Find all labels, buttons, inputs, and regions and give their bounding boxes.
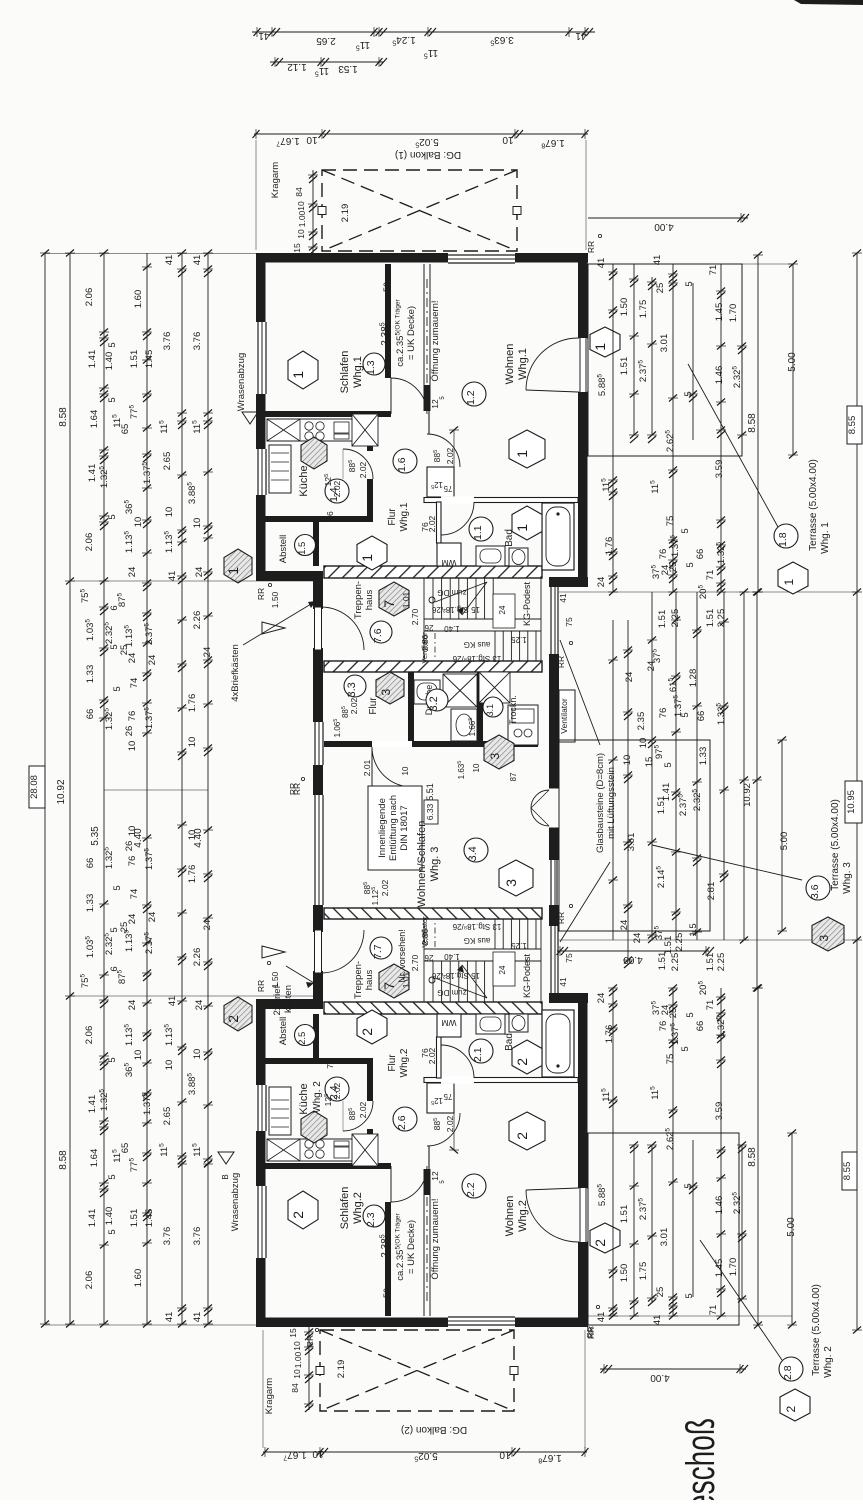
svg-text:10: 10 [502,134,514,145]
svg-text:13 Stg.18⁸/26: 13 Stg.18⁸/26 [452,654,501,663]
svg-text:10: 10 [292,1369,302,1379]
svg-text:3.01: 3.01 [659,334,670,353]
svg-text:3: 3 [488,753,502,760]
svg-text:5.00: 5.00 [779,832,790,851]
svg-text:10: 10 [164,507,175,518]
svg-text:2: 2 [225,1015,241,1023]
svg-text:24: 24 [596,577,607,588]
svg-text:15 Stg.18²/26: 15 Stg.18²/26 [431,971,480,980]
svg-text:1.51: 1.51 [619,1205,630,1224]
svg-text:41: 41 [652,1315,663,1326]
svg-text:3.4: 3.4 [467,846,479,861]
svg-text:2.2: 2.2 [465,1182,477,1197]
svg-text:41: 41 [167,571,178,582]
svg-text:2.02: 2.02 [445,447,455,464]
svg-text:76: 76 [658,549,669,560]
svg-text:41: 41 [164,1312,175,1323]
svg-text:1.60: 1.60 [133,290,144,309]
svg-text:DG: Balkon (2): DG: Balkon (2) [401,1424,467,1435]
svg-text:Whg.1: Whg.1 [352,356,364,388]
svg-text:2.02: 2.02 [332,1082,342,1099]
svg-text:2xBrief-: 2xBrief- [272,983,283,1016]
svg-text:3.3: 3.3 [346,682,358,697]
svg-text:2.5: 2.5 [297,1032,308,1045]
svg-text:10: 10 [292,1341,302,1351]
svg-text:= UK Decke): = UK Decke) [406,1220,417,1274]
svg-text:24: 24 [202,647,213,658]
svg-text:3: 3 [503,879,519,887]
svg-text:10.92: 10.92 [742,783,753,807]
svg-text:B: B [221,1174,230,1179]
svg-text:Whg.1: Whg.1 [399,502,410,531]
svg-text:KG-Podest: KG-Podest [522,581,532,626]
svg-text:84: 84 [294,187,304,197]
svg-text:5: 5 [109,927,120,932]
svg-text:haus: haus [364,589,375,610]
svg-text:Ventilator: Ventilator [420,916,429,948]
svg-text:41: 41 [558,593,568,603]
svg-text:13 Stg.18⁸/26: 13 Stg.18⁸/26 [452,922,501,931]
svg-text:24: 24 [619,920,630,931]
svg-text:2: 2 [359,1028,375,1036]
svg-text:Ventilator: Ventilator [420,632,429,664]
svg-text:66: 66 [85,709,96,720]
svg-text:15: 15 [292,243,302,253]
svg-text:1.5: 1.5 [297,542,308,555]
svg-text:1: 1 [782,579,796,586]
svg-text:76: 76 [658,708,669,719]
svg-text:Whg.1: Whg.1 [517,348,529,380]
svg-text:66: 66 [695,549,706,560]
svg-text:6.33: 6.33 [425,803,435,820]
terrace Whg.3 outline [559,740,710,931]
svg-text:1: 1 [592,343,608,351]
svg-text:26: 26 [124,726,135,737]
svg-text:5: 5 [107,397,118,402]
svg-text:Wrasenabzug: Wrasenabzug [230,1173,241,1231]
svg-text:50: 50 [382,282,392,292]
svg-text:24: 24 [596,993,607,1004]
svg-text:Flur: Flur [368,697,379,715]
svg-text:3.01: 3.01 [659,1228,670,1247]
svg-text:7: 7 [381,982,397,990]
right dimension chains [608,252,798,596]
svg-text:1.70: 1.70 [728,304,739,323]
svg-text:75: 75 [443,1092,452,1101]
svg-text:DG: Balkon (1): DG: Balkon (1) [395,149,461,160]
svg-text:Schlafen: Schlafen [339,1187,351,1230]
svg-text:RR: RR [288,783,298,795]
svg-text:41: 41 [596,1312,607,1323]
svg-text:84: 84 [290,1383,300,1393]
svg-text:1.33: 1.33 [85,894,96,913]
svg-text:8.58: 8.58 [58,407,69,427]
svg-text:1.45: 1.45 [144,1209,155,1228]
svg-text:5: 5 [109,644,120,649]
svg-text:41: 41 [258,30,270,41]
svg-text:1.51: 1.51 [705,609,716,628]
svg-text:= UK Decke): = UK Decke) [406,306,417,360]
svg-text:Entlüftung nach: Entlüftung nach [388,795,399,861]
svg-text:Treppen-: Treppen- [353,581,364,619]
svg-text:2.19: 2.19 [340,204,351,223]
svg-text:1.40: 1.40 [444,624,460,633]
svg-text:71: 71 [708,1305,719,1316]
svg-text:1.50: 1.50 [270,591,280,608]
svg-text:RR: RR [556,912,566,924]
svg-text:66: 66 [85,858,96,869]
svg-text:41: 41 [167,996,178,1007]
Kragarm labels and small dim columns at balconies [264,162,351,1415]
Glasbausteine annotation with leaders [560,640,617,942]
svg-text:3.2: 3.2 [428,696,440,711]
svg-text:1.00: 1.00 [293,1351,303,1368]
left dimension chains [40,250,213,1328]
svg-text:Innenliegende: Innenliegende [377,798,388,858]
svg-text:8.58: 8.58 [747,1147,758,1167]
svg-text:RR: RR [586,241,596,253]
svg-text:28.08: 28.08 [29,775,40,799]
svg-text:RR: RR [556,656,566,668]
svg-text:Kragarm: Kragarm [270,162,281,199]
svg-text:2.06: 2.06 [84,1026,95,1045]
svg-text:50: 50 [382,1288,392,1298]
svg-text:5: 5 [107,1174,118,1179]
svg-text:2.06: 2.06 [84,533,95,552]
svg-text:Whg. 3: Whg. 3 [842,862,853,894]
svg-text:10: 10 [187,737,198,748]
svg-text:1.41: 1.41 [87,1209,98,1228]
svg-text:1.01: 1.01 [401,591,411,608]
terrace Whg.2 outline [588,1133,739,1325]
svg-text:KG-Podest: KG-Podest [522,953,532,998]
svg-text:65: 65 [120,424,131,435]
svg-text:3.76: 3.76 [192,332,203,351]
svg-text:5: 5 [683,391,694,396]
svg-text:25: 25 [668,1008,679,1019]
svg-text:5: 5 [112,686,123,691]
svg-text:15: 15 [644,757,655,768]
svg-text:2.25: 2.25 [716,953,727,972]
svg-text:41: 41 [575,30,587,41]
svg-text:1.50: 1.50 [619,298,630,317]
svg-text:3: 3 [817,935,831,942]
svg-text:2.19: 2.19 [336,1360,347,1379]
svg-text:3.76: 3.76 [162,1227,173,1246]
svg-text:2.65: 2.65 [162,1107,173,1126]
svg-text:2: 2 [290,1211,306,1219]
svg-text:Terrasse (5.00x4.00): Terrasse (5.00x4.00) [811,1284,822,1376]
svg-text:Schlafen: Schlafen [339,351,351,394]
svg-text:41: 41 [596,258,607,269]
svg-text:5: 5 [663,762,674,767]
svg-text:2.26: 2.26 [192,611,203,630]
svg-text:1.60: 1.60 [133,1269,144,1288]
svg-text:5: 5 [112,885,123,890]
svg-text:RR: RR [256,980,266,992]
svg-text:Flur: Flur [387,1054,398,1072]
terrace reference circles and hexagons with leader lines [652,364,853,1421]
svg-text:Glasbausteine (D=8cm): Glasbausteine (D=8cm) [595,753,606,853]
svg-text:2.25: 2.25 [674,933,685,952]
svg-text:24: 24 [127,567,138,578]
svg-text:1.40: 1.40 [104,1207,115,1226]
svg-text:5: 5 [680,528,691,533]
svg-text:1.33: 1.33 [698,747,709,766]
svg-text:15 Stg.18²/26: 15 Stg.18²/26 [431,605,480,614]
svg-text:41: 41 [164,255,175,266]
svg-text:10: 10 [296,229,306,239]
svg-text:1.28: 1.28 [688,669,699,688]
svg-text:5.00: 5.00 [786,1217,797,1237]
svg-text:24: 24 [202,920,213,931]
svg-text:1.51: 1.51 [663,936,674,955]
svg-text:2.02: 2.02 [358,1101,368,1118]
svg-text:5: 5 [684,1293,695,1298]
svg-text:10: 10 [164,1060,175,1071]
svg-text:66: 66 [696,711,707,722]
svg-text:Wohnen: Wohnen [504,344,516,385]
svg-text:2.02: 2.02 [380,879,390,896]
svg-text:2.25: 2.25 [670,953,681,972]
svg-text:1: 1 [290,371,306,379]
svg-text:5: 5 [107,1057,118,1062]
svg-text:75: 75 [665,516,676,527]
svg-text:1.5: 1.5 [688,923,699,936]
svg-text:1.75: 1.75 [638,1262,649,1281]
svg-text:24: 24 [194,567,205,578]
svg-text:1: 1 [359,554,375,562]
svg-text:41: 41 [558,977,568,987]
svg-text:mit Lüftungsstein: mit Lüftungsstein [606,767,617,839]
building walls – Whg.2 (bottom, mirrored copy) with stairwell 2 [256,908,588,1327]
svg-text:2.6: 2.6 [396,1115,408,1130]
svg-text:1.51: 1.51 [129,350,140,369]
svg-text:1.76: 1.76 [187,694,198,713]
svg-text:5: 5 [680,1046,691,1051]
svg-text:8.55: 8.55 [847,416,858,435]
svg-text:10: 10 [127,741,138,752]
svg-text:4.40: 4.40 [193,828,204,848]
svg-text:24: 24 [127,653,138,664]
svg-text:2.35: 2.35 [636,712,647,731]
svg-text:Whg. 1: Whg. 1 [820,522,831,554]
svg-text:66: 66 [695,1021,706,1032]
svg-text:2.06: 2.06 [84,288,95,307]
svg-text:1.51: 1.51 [657,610,668,629]
svg-text:aus KG: aus KG [464,640,491,649]
svg-text:2.1: 2.1 [472,1047,484,1062]
svg-text:3.1: 3.1 [485,704,495,717]
svg-text:1.41: 1.41 [87,350,98,369]
entrance annotations 4x/2x Briefkaesten [230,601,316,1015]
svg-text:24: 24 [147,912,158,923]
svg-text:1.75: 1.75 [638,300,649,319]
svg-text:6: 6 [109,605,120,610]
svg-text:RR: RR [305,1335,315,1347]
svg-text:6: 6 [109,966,120,971]
svg-text:10: 10 [472,763,481,772]
top dimension chain B [270,57,387,77]
svg-text:4.00: 4.00 [654,221,674,232]
svg-text:3.59: 3.59 [714,460,725,479]
svg-text:1.76: 1.76 [604,1025,615,1044]
svg-text:74: 74 [129,889,140,900]
svg-text:12: 12 [430,1171,440,1181]
svg-text:76: 76 [127,856,138,867]
left dimension labels [29,255,213,1323]
svg-text:10: 10 [306,134,318,145]
svg-text:25: 25 [655,283,666,294]
svg-text:1.64: 1.64 [89,410,100,429]
svg-text:Öffnung zumauern!: Öffnung zumauern! [430,1198,441,1279]
svg-text:71: 71 [708,265,719,276]
svg-text:1.70: 1.70 [728,1258,739,1277]
svg-text:Whg.2: Whg.2 [399,1048,410,1077]
svg-text:10: 10 [312,1448,324,1459]
svg-text:5.35: 5.35 [90,826,101,846]
svg-text:87: 87 [509,772,518,781]
svg-text:24: 24 [498,965,507,974]
svg-text:1.76: 1.76 [604,537,615,556]
svg-text:10.95: 10.95 [846,790,857,814]
svg-text:2.02: 2.02 [427,1047,437,1064]
svg-text:1.12: 1.12 [287,61,307,72]
svg-text:1.51: 1.51 [705,953,716,972]
svg-text:Öffnung zumauern!: Öffnung zumauern! [430,300,441,381]
svg-text:1.64: 1.64 [89,1149,100,1168]
terrace 4.00 width dimensions [557,213,750,1383]
svg-text:41: 41 [192,1312,203,1323]
svg-text:12: 12 [430,399,440,409]
svg-text:Whg. 2: Whg. 2 [312,1081,323,1113]
svg-text:2.65: 2.65 [316,35,336,46]
svg-text:10: 10 [638,738,649,749]
svg-text:1.25: 1.25 [511,941,527,950]
svg-text:1.51: 1.51 [619,357,630,376]
svg-text:71: 71 [705,1000,716,1011]
svg-text:25: 25 [655,1287,666,1298]
room labels Whg.3 [292,672,569,907]
svg-text:1: 1 [225,567,241,575]
bottom dimension chain (overall 5.02) [262,1447,589,1464]
svg-text:1.45: 1.45 [144,350,155,369]
svg-text:RR: RR [256,588,266,600]
svg-text:5: 5 [685,562,696,567]
svg-text:3.6: 3.6 [809,884,821,899]
svg-text:26: 26 [424,953,433,962]
svg-text:2.65: 2.65 [162,452,173,471]
svg-text:Wrasenabzug: Wrasenabzug [236,353,247,411]
svg-text:2.01: 2.01 [362,759,372,776]
svg-text:1.51: 1.51 [129,1209,140,1228]
svg-text:2.8: 2.8 [782,1365,794,1380]
svg-text:5: 5 [107,342,118,347]
svg-text:10: 10 [133,1050,144,1061]
svg-text:75: 75 [665,1054,676,1065]
svg-text:3.76: 3.76 [192,1227,203,1246]
svg-text:1.00: 1.00 [297,210,307,227]
svg-text:4.40: 4.40 [133,828,144,848]
svg-text:24: 24 [147,655,158,666]
svg-text:5.51: 5.51 [425,783,435,801]
svg-text:Terrasse (5.00x4.00): Terrasse (5.00x4.00) [808,459,819,551]
svg-text:4.00: 4.00 [623,954,643,965]
svg-text:Flur: Flur [387,508,398,526]
svg-text:10.92: 10.92 [56,779,67,804]
room labels Whg.1 [224,241,620,668]
svg-text:10: 10 [499,1449,511,1460]
svg-text:WM: WM [441,558,456,568]
svg-text:10: 10 [133,517,144,528]
svg-text:71: 71 [705,570,716,581]
room labels Whg.2 [224,912,620,1339]
svg-text:Abstell: Abstell [278,1017,289,1046]
svg-text:7: 7 [381,600,397,608]
svg-text:2.70: 2.70 [410,954,420,971]
svg-text:aus KG: aus KG [464,936,491,945]
svg-text:Kragarm: Kragarm [264,1378,275,1415]
svg-text:Treppen-: Treppen- [353,961,364,999]
svg-text:kästen: kästen [283,985,294,1013]
svg-text:2.25: 2.25 [716,609,727,628]
svg-text:Whg. 2: Whg. 2 [823,1346,834,1378]
svg-text:76: 76 [325,511,335,521]
svg-text:Ventilator: Ventilator [559,698,569,734]
svg-text:74: 74 [129,678,140,689]
svg-text:75: 75 [564,617,574,627]
svg-text:2.81: 2.81 [706,882,717,901]
svg-text:7.6: 7.6 [372,628,384,643]
svg-text:5: 5 [685,1012,696,1017]
svg-text:10: 10 [401,766,410,775]
svg-text:8.55: 8.55 [842,1162,853,1181]
black corner artifact top-right [794,0,863,5]
svg-text:2.02: 2.02 [332,480,342,497]
svg-text:65: 65 [120,1143,131,1154]
svg-text:76: 76 [658,1021,669,1032]
svg-text:Wohnen/Schlafen: Wohnen/Schlafen [416,821,428,908]
svg-text:24: 24 [127,914,138,925]
svg-text:2.02: 2.02 [349,697,359,714]
svg-text:1.41: 1.41 [87,464,98,483]
svg-text:4xBriefkästen: 4xBriefkästen [230,644,241,702]
svg-text:Whg.2: Whg.2 [352,1192,364,1224]
svg-text:75: 75 [564,953,574,963]
svg-text:2.02: 2.02 [445,1115,455,1132]
svg-text:1.40: 1.40 [104,352,115,371]
svg-text:2.26: 2.26 [192,948,203,967]
svg-text:75: 75 [443,484,452,493]
svg-text:Terrasse (5.00x4.00): Terrasse (5.00x4.00) [830,799,841,891]
svg-text:WM: WM [441,1018,456,1028]
svg-text:Whg. 3: Whg. 3 [429,847,441,882]
svg-text:76: 76 [127,711,138,722]
svg-text:8.58: 8.58 [747,413,758,433]
svg-text:41: 41 [192,255,203,266]
svg-text:5: 5 [107,514,118,519]
svg-text:24: 24 [632,933,643,944]
svg-text:1.45: 1.45 [714,303,725,322]
svg-text:3.59: 3.59 [714,1102,725,1121]
svg-text:1.46: 1.46 [714,1196,725,1215]
Wrasenabzug vent labels [218,353,258,1231]
building outer and interior walls – Whg.1 (top) with stairwell 1 [256,253,588,672]
svg-text:8.58: 8.58 [58,1150,69,1170]
svg-text:3.81: 3.81 [626,833,637,852]
svg-text:10: 10 [192,518,203,529]
svg-text:1.41: 1.41 [661,783,672,802]
